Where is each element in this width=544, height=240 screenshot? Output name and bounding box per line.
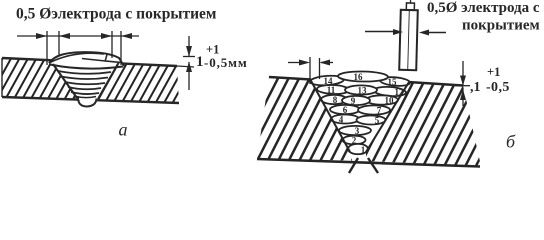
svg-text:7: 7 bbox=[377, 106, 382, 116]
svg-text:-0,5: -0,5 bbox=[486, 80, 510, 95]
svg-text:0,5 Øэлектрода с покрытием: 0,5 Øэлектрода с покрытием bbox=[16, 6, 217, 23]
svg-text:10: 10 bbox=[385, 96, 395, 106]
svg-text:6: 6 bbox=[343, 105, 348, 115]
svg-text:а: а bbox=[119, 120, 128, 140]
svg-text:9: 9 bbox=[351, 96, 356, 106]
svg-text:3: 3 bbox=[355, 126, 360, 136]
svg-text:2: 2 bbox=[352, 136, 357, 146]
svg-text:+1: +1 bbox=[487, 65, 500, 79]
svg-text:1: 1 bbox=[196, 54, 204, 70]
svg-text:покрытием: покрытием bbox=[462, 18, 540, 34]
svg-text:16: 16 bbox=[354, 72, 364, 82]
svg-text:5: 5 bbox=[375, 116, 380, 126]
svg-text:8: 8 bbox=[333, 95, 338, 105]
svg-text:15: 15 bbox=[388, 77, 398, 87]
svg-text:б: б bbox=[506, 132, 516, 152]
svg-text:13: 13 bbox=[358, 86, 368, 96]
svg-text:12: 12 bbox=[395, 87, 405, 97]
svg-text:0,5Ø электрода с: 0,5Ø электрода с bbox=[427, 0, 540, 16]
svg-text:,1: ,1 bbox=[470, 80, 481, 95]
svg-text:1: 1 bbox=[361, 145, 366, 155]
svg-text:-0,5мм: -0,5мм bbox=[204, 55, 248, 70]
svg-text:11: 11 bbox=[327, 85, 336, 95]
svg-text:4: 4 bbox=[339, 115, 344, 125]
